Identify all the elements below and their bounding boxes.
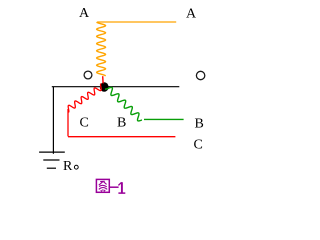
svg-text:A: A <box>79 6 90 21</box>
svg-text:R: R <box>63 159 73 174</box>
svg-text:A: A <box>186 7 197 22</box>
svg-text:B: B <box>195 117 204 132</box>
svg-text:C: C <box>194 138 203 153</box>
svg-text:C: C <box>80 116 89 131</box>
svg-text:B: B <box>117 116 126 131</box>
